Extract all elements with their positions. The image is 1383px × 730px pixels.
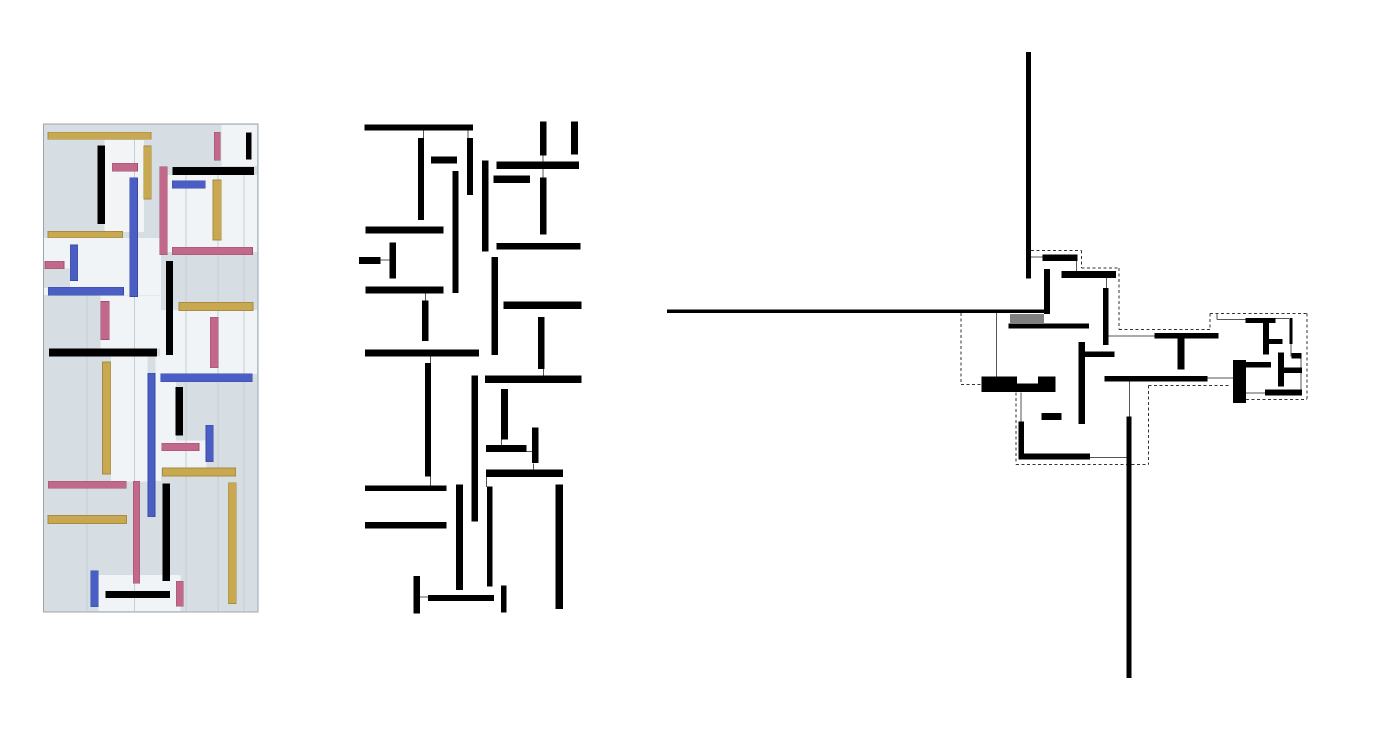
blue wall U4 [172,181,205,189]
room white B top-right [222,125,257,166]
wall R8 [1009,324,1090,329]
dashed boundary d14 [1306,314,1308,400]
thin line l10 [1216,314,1218,320]
room white C [167,175,257,252]
pink wall P11 [176,581,183,606]
dashed boundary d3 [1015,393,1017,465]
black wall B1 [98,145,105,223]
wall MV14 [482,161,488,252]
blue wall U7 [206,425,213,462]
pink wall P7 [210,317,218,367]
dashed boundary d4 [1016,464,1149,466]
wall MH8 [359,257,381,264]
wall MV11 [571,122,578,155]
pink wall P2 [214,132,220,160]
dashed boundary d15 [1246,399,1307,401]
partition line 5 [243,168,245,611]
thin line l2 [1031,256,1043,258]
wall MV7 [389,242,396,278]
connector line m7 [543,368,545,377]
wall MV4 [467,138,473,195]
wall MH1 [365,124,473,130]
connector line m12 [532,463,534,470]
pink wall P8 [162,443,199,451]
pink wall P1 [112,163,137,171]
pink wall P4 [172,247,252,254]
room white F [160,310,257,374]
wall R20 [1263,322,1269,354]
black wall B6 [176,387,183,435]
black wall B7 [163,483,170,581]
wall MV10 [540,122,546,156]
thin line l11 [1217,319,1246,321]
pink wall P5 [45,261,64,268]
connector line m8 [526,450,533,452]
wall R15 L-horizontal [1018,454,1089,460]
wall R17 T-horizontal [1154,333,1218,339]
connector line m4 [542,154,544,179]
room white D [44,238,161,295]
wall MV22 [538,317,544,369]
room white I bottom [99,575,181,611]
wall R23 [1278,353,1284,387]
wall MH28 [486,470,563,477]
blue wall U8 [91,571,99,607]
wall MV20 [425,363,431,477]
wall R28 [1265,390,1302,396]
tan wall T8 [48,516,127,524]
connector line m1 [423,128,425,140]
wall R18 T-stem [1178,339,1185,370]
room white sliver left of U5 [156,356,162,481]
wall R11 [1104,376,1207,382]
tan wall T7 [163,468,236,476]
blue wall U6 [148,373,155,516]
dashed boundary d12 [1209,314,1211,330]
partition line 1 [86,295,88,611]
wall MV25 [501,389,508,440]
dashed boundary d5 [1148,386,1150,465]
wall R12 block (right part) [1038,377,1056,393]
blue wall U5 [161,374,252,382]
thin line l9 [1207,377,1233,379]
tan wall T2 [144,146,152,199]
room white G [111,356,148,481]
wall MH27 [486,445,527,452]
wall R12 block (lower notch strip) [1017,384,1038,392]
wall MV35 [556,484,563,609]
wall MV2 [418,138,424,220]
room white A [105,140,145,232]
connector line m11 [419,596,429,598]
wall R12 block (left part) [982,377,1018,393]
wall R1 top vertical [1026,52,1031,279]
wall MH23 [485,375,581,383]
black wall B4 [166,261,173,355]
connector line m3 [379,259,391,261]
wall MH3 [431,156,457,163]
pink wall P10 [133,481,140,583]
connector line m9 [430,475,432,486]
thin line l7 [1090,457,1127,459]
wall MV34 [487,487,492,587]
wall MH13 [493,176,530,183]
wall R27 [1246,362,1271,368]
wall MV17 [492,257,498,355]
tan wall T3 [48,232,123,238]
wall R14 L-vertical [1018,422,1024,460]
partition line 4 [217,175,219,611]
wall R19 [1246,318,1276,323]
dashed boundary d6 [1149,385,1231,387]
tan wall T4 [213,180,221,240]
tan wall T5 [179,303,253,311]
dashed boundary d11 [1119,329,1210,331]
tan wall T6 [103,362,111,474]
wall MH21 [503,302,581,309]
thin line l12 [1290,344,1292,357]
tan wall T1 [48,132,151,139]
wall MV24 [472,375,478,521]
pink wall P9 [48,481,126,488]
tan wall T9 [228,483,236,604]
wall MV32 [413,576,420,613]
connector line m2 [467,128,469,140]
thin line l16 [1246,392,1265,394]
black wall B5 [49,349,157,357]
black wall B3 [246,133,252,160]
wall MH9 [366,287,444,294]
wall MH33 [428,595,494,601]
wall R25 [1283,368,1303,374]
wall MV26 [532,428,539,464]
connector line m5 [425,292,427,302]
wall R16 bottom long vertical [1126,416,1131,678]
dashed boundary d10 [1118,268,1120,329]
thin line l3 [1076,261,1078,271]
thin line l1 [995,312,997,377]
connector line m6 [430,355,432,364]
dashed boundary d7 [1031,249,1081,251]
dashed boundary d13 [1210,313,1307,315]
wall R5 [1103,288,1109,345]
wall MV18 [422,300,428,340]
wall R13 [1042,413,1062,420]
blue wall U2 [70,245,78,281]
thin line l15 [1300,373,1302,390]
pink wall P3 [160,167,168,255]
wall MH30 [365,522,447,528]
gray patch below P5 [44,269,70,289]
left panel background [44,124,259,612]
wall R6 long horizontal [667,309,1050,313]
wall R24 [1292,353,1302,359]
wall MV36 [501,586,506,613]
wall MV5 [453,171,459,293]
dashed boundary d8 [1080,250,1082,268]
thin line l14 [1300,359,1302,368]
wall R21 [1268,339,1283,344]
wall R3 [1044,269,1050,314]
thin line l4 [1105,277,1107,288]
dashed boundary d9 [1081,267,1119,269]
wall R4 [1062,271,1117,278]
wall R10 [1085,352,1115,357]
blue wall U3 [48,287,123,295]
black wall B8 [106,591,170,598]
thin line l13 [1276,318,1290,320]
thin line l8 [1129,382,1131,417]
wall MH12 [497,161,579,169]
thin line l5 [1109,335,1155,337]
room white E [100,296,161,349]
black wall B2 [172,167,254,175]
wall MV15 [540,178,546,235]
wall R2 [1043,255,1078,261]
wall R26 block [1233,360,1246,403]
pink wall P6 [101,302,109,340]
dashed boundary d2 [961,383,982,385]
thin line l6 [1020,393,1022,422]
dashed boundary d1 [960,313,962,384]
wall MH6 [366,226,444,233]
partition line 2 [134,139,136,611]
room white H lower [161,441,207,469]
partition line 3 [185,175,187,611]
blue wall U1 [130,178,138,297]
wall MH19 [365,349,479,356]
room white H left strip [161,382,176,451]
wall MV31 [456,484,463,590]
connector line m13 [486,477,488,487]
wall MH29 [365,485,447,491]
stairs hatch R7 [1011,314,1043,323]
wall R9 [1078,342,1085,424]
wall MH16 [497,243,581,250]
wall R22 [1290,318,1293,344]
connector line m10 [500,438,502,445]
